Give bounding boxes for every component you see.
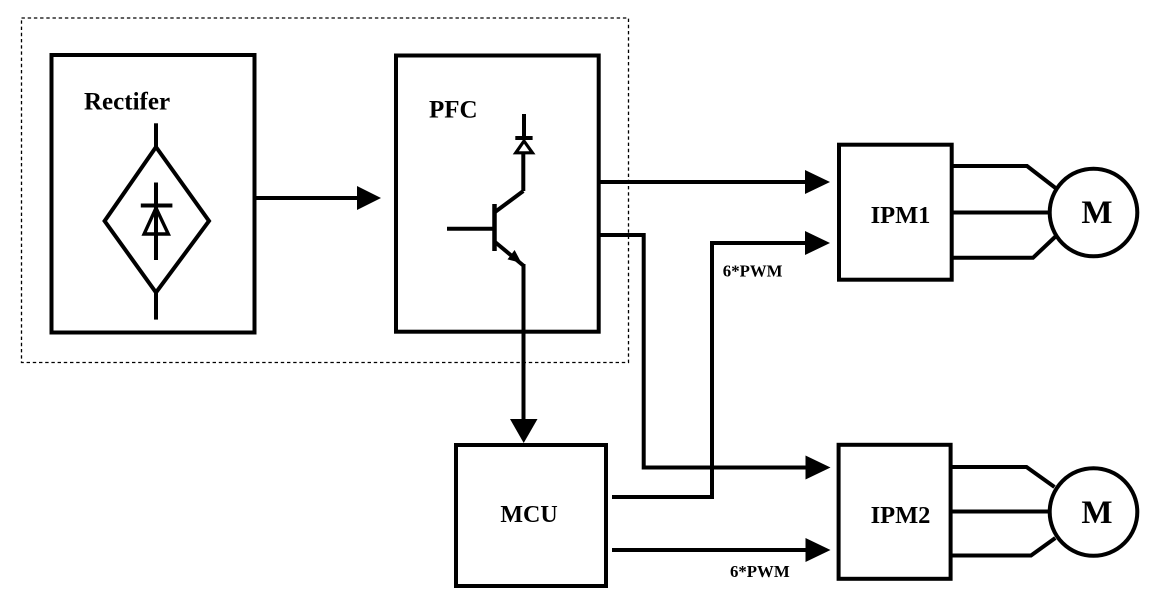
motor M2 circle bbox=[1050, 468, 1138, 556]
motor M1 circle bbox=[1050, 169, 1138, 257]
wire: IPM2 phase W to motor M2 bbox=[951, 538, 1056, 556]
wire: IPM2 phase U to motor M2 bbox=[951, 467, 1055, 487]
svg-text:M: M bbox=[1081, 195, 1112, 231]
IPM2 block box bbox=[839, 445, 951, 579]
wire: stub below bridge diamond bbox=[154, 290, 158, 320]
wire: IPM1 phase W to motor M1 bbox=[952, 237, 1056, 258]
wire: IPM2 phase V to motor M2 bbox=[951, 510, 1050, 514]
wire: MCU to IPM2 (6*PWM) bbox=[612, 548, 806, 552]
transistor Q1 collector diagonal bbox=[495, 191, 523, 212]
diode D2 cathode bar bbox=[515, 136, 532, 140]
svg-text:6*PWM: 6*PWM bbox=[723, 262, 783, 281]
svg-text:PFC: PFC bbox=[429, 97, 478, 124]
svg-text:Rectifer: Rectifer bbox=[84, 89, 170, 116]
svg-text:IPM1: IPM1 bbox=[871, 202, 931, 229]
PFC block box bbox=[396, 56, 599, 332]
transistor Q1 base lead bbox=[447, 227, 494, 231]
wire: MCU to IPM1 (6*PWM) bbox=[612, 243, 806, 497]
transistor Q1 emitter arrowhead bbox=[508, 250, 522, 263]
wire: IPM1 phase V to motor M1 bbox=[952, 211, 1050, 215]
diode D2 triangle bbox=[516, 141, 533, 153]
svg-text:MCU: MCU bbox=[500, 502, 557, 528]
arrow: rectifier to PFC bbox=[255, 196, 359, 200]
diode D1 (inside bridge): anode lead bbox=[154, 183, 158, 261]
wire: PFC second output down and right to IPM2 bbox=[599, 235, 806, 468]
diode D1 triangle bbox=[144, 208, 168, 234]
diode D1 cathode bar bbox=[141, 204, 173, 208]
wire: stub above bridge diamond bbox=[154, 123, 158, 150]
bridge diamond bbox=[105, 147, 209, 293]
wire: diode to transistor collector bbox=[521, 153, 525, 191]
wire: PFC output to IPM1 bbox=[599, 180, 806, 184]
rectifier block box bbox=[52, 55, 255, 333]
wire+arrow: PFC emitter down to MCU bbox=[522, 264, 526, 420]
dotted enclosure (AC-DC front end) bbox=[22, 18, 629, 363]
MCU block box bbox=[456, 445, 606, 586]
transistor Q1 base bar bbox=[492, 204, 497, 251]
svg-text:M: M bbox=[1081, 495, 1112, 531]
wire: IPM1 phase U to motor M1 bbox=[952, 166, 1056, 188]
transistor Q1 emitter diagonal bbox=[495, 242, 524, 266]
wire: PFC diode top lead bbox=[522, 114, 526, 138]
svg-text:6*PWM: 6*PWM bbox=[730, 562, 790, 581]
IPM1 block box bbox=[839, 145, 952, 280]
svg-text:IPM2: IPM2 bbox=[871, 502, 931, 529]
